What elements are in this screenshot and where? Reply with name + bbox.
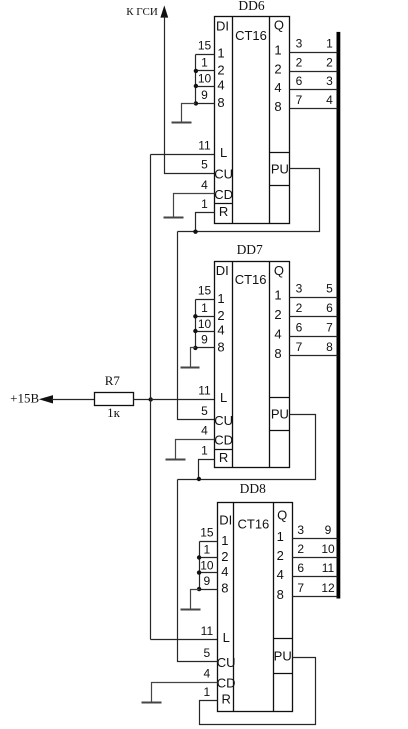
DD6 node DI pin9 junction [194, 101, 198, 105]
DD7 function label CT16 [235, 272, 267, 287]
DD6 R cell divider [215, 203, 233, 205]
svg-text:CT16: CT16 [235, 272, 267, 287]
DD6 Q weight 4 [274, 80, 281, 95]
DD7 wire R to PU loop [199, 415, 316, 480]
DD6 pin 6 (Q output) [296, 74, 303, 88]
DD8 input label CU [217, 655, 236, 670]
DD8 node DI pin9 junction [197, 587, 201, 591]
DD6 Q weight 2 [274, 61, 281, 76]
svg-text:3: 3 [297, 523, 304, 537]
svg-text:15: 15 [198, 38, 212, 52]
DD6 bus line number 1 [326, 36, 333, 50]
DD8 input label CD [217, 676, 236, 691]
wire DD6.L stub [151, 154, 215, 156]
svg-text:4: 4 [217, 323, 224, 338]
svg-text:4: 4 [204, 666, 211, 680]
svg-text:10: 10 [198, 317, 212, 331]
svg-text:4: 4 [217, 78, 224, 93]
DD8 column header DI [219, 513, 232, 528]
DD6 node DI pin10 junction [194, 84, 198, 88]
DD6 ground (CD input) [164, 194, 215, 218]
svg-text:DD6: DD6 [238, 0, 264, 13]
DD6 pin 1 (DI) [201, 56, 208, 70]
DD7 node DI pin1 junction [193, 314, 197, 318]
svg-text:9: 9 [204, 574, 211, 588]
svg-text:DI: DI [219, 513, 232, 528]
svg-text:5: 5 [326, 281, 333, 295]
DD6 node R net junction [193, 230, 197, 234]
DD7 column header Q [274, 263, 284, 278]
svg-text:R: R [222, 692, 231, 707]
svg-text:DD8: DD8 [240, 481, 266, 496]
DD7 node DI pin9 junction [193, 346, 197, 350]
DD7 output Q wire pin 2 to bus line 6 [290, 316, 338, 318]
DD6 pin 9 (DI) [201, 88, 208, 102]
svg-text:CT16: CT16 [238, 516, 270, 531]
DD8 input label R [222, 692, 231, 707]
svg-text:1: 1 [277, 529, 284, 544]
DD7 pin 10 (DI) [198, 317, 212, 331]
svg-text:4: 4 [274, 80, 281, 95]
DD8 pin 4 (CD) [204, 666, 211, 680]
DD8 input label L [223, 630, 230, 645]
DD7 ground (CD input) [166, 440, 215, 460]
DD7 pin 1 (R) [201, 443, 208, 457]
DD8 pin 15 (DI) [200, 526, 214, 540]
svg-text:DI: DI [216, 18, 229, 33]
DD7 output Q wire pin 6 to bus line 7 [290, 336, 338, 338]
DD6 output Q wire pin 2 to bus line 2 [290, 71, 338, 73]
svg-text:11: 11 [198, 384, 211, 398]
counter DD6 (CT16) symbol outline [215, 17, 290, 224]
wire DD7 carry to DD8.CU stub [178, 480, 218, 662]
svg-text:+15В: +15В [10, 390, 39, 405]
DD6 DI weight 2 [217, 63, 224, 78]
DD7 Q weight 1 [274, 287, 281, 302]
svg-text:10: 10 [198, 72, 212, 86]
DD8 ground (CD input) [142, 683, 218, 703]
DD8 output Q wire pin 7 to bus line 12 [293, 596, 338, 598]
svg-text:2: 2 [296, 301, 303, 315]
DD6 PU cell [270, 153, 290, 186]
DD7 input label CD [214, 433, 233, 448]
svg-text:1: 1 [204, 685, 211, 699]
DD6 bus line number 4 [326, 93, 333, 107]
svg-text:8: 8 [274, 99, 281, 114]
svg-text:4: 4 [326, 93, 333, 107]
DD8 DI weight 1 [221, 533, 228, 548]
svg-text:2: 2 [221, 549, 228, 564]
DD6 DI input stubs (pins 15,1,10,9) with common vertical [196, 55, 215, 104]
DD8 DI weight 8 [221, 581, 228, 596]
svg-text:PU: PU [271, 407, 289, 422]
DD7 pin 7 (Q output) [296, 340, 303, 354]
DD8 Q weight 8 [277, 587, 284, 602]
DD8 pin 10 (DI) [200, 558, 214, 572]
DD7 bus line number 8 [326, 340, 333, 354]
DD8 ground (DI inputs) [181, 590, 201, 610]
svg-text:R: R [219, 450, 228, 465]
svg-text:2: 2 [274, 61, 281, 76]
label DD8 [240, 481, 266, 496]
DD8 DI weight 4 [221, 564, 228, 579]
DD6 pin 10 (DI) [198, 72, 212, 86]
DD6 pin 1 (R) [201, 197, 208, 211]
DD7 pin 15 (DI) [198, 284, 212, 298]
svg-text:L: L [220, 390, 227, 405]
DD7 Q weight 8 [274, 346, 281, 361]
DD8 bus line number 9 [325, 523, 332, 537]
svg-text:6: 6 [296, 74, 303, 88]
DD6 bus line number 2 [326, 55, 333, 69]
svg-text:12: 12 [321, 581, 335, 595]
svg-text:8: 8 [217, 340, 224, 355]
DD8 output Q wire pin 2 to bus line 10 [293, 557, 338, 559]
svg-text:CD: CD [214, 187, 233, 202]
svg-text:7: 7 [296, 93, 303, 107]
svg-text:4: 4 [277, 567, 284, 582]
wire R7 to L-net [134, 399, 151, 401]
svg-text:3: 3 [296, 281, 303, 295]
svg-text:10: 10 [321, 542, 335, 556]
svg-text:2: 2 [217, 308, 224, 323]
svg-text:10: 10 [200, 558, 214, 572]
svg-text:6: 6 [296, 320, 303, 334]
DD7 input label CU [214, 413, 233, 428]
svg-text:7: 7 [296, 340, 303, 354]
svg-text:2: 2 [326, 55, 333, 69]
DD7 node R net junction [197, 477, 201, 481]
DD8 Q weight 2 [277, 548, 284, 563]
svg-text:11: 11 [201, 624, 214, 638]
svg-text:4: 4 [221, 564, 228, 579]
DD8 pin 2 (Q output) [297, 542, 304, 556]
svg-text:CU: CU [214, 413, 233, 428]
DD8 wire R to PU loop [200, 658, 316, 725]
DD6 pin 15 (DI) [198, 38, 212, 52]
DD7 PU cell [270, 398, 290, 431]
svg-text:1: 1 [201, 56, 208, 70]
DD7 pin 6 (Q output) [296, 320, 303, 334]
svg-text:6: 6 [326, 301, 333, 315]
svg-text:4: 4 [201, 178, 208, 192]
svg-text:3: 3 [296, 36, 303, 50]
DD6 wire R to PU loop [196, 169, 320, 232]
svg-text:11: 11 [322, 561, 335, 575]
label DD6 [238, 0, 264, 13]
svg-text:8: 8 [274, 346, 281, 361]
DD6 pin 11 (L) [198, 139, 211, 153]
svg-text:R7: R7 [105, 373, 121, 388]
svg-text:8: 8 [221, 581, 228, 596]
svg-text:4: 4 [201, 424, 208, 438]
svg-text:DI: DI [216, 263, 229, 278]
svg-text:8: 8 [277, 587, 284, 602]
DD6 pin 5 (CU) [201, 158, 208, 172]
DD6 DI weight 4 [217, 78, 224, 93]
DD7 pin 3 (Q output) [296, 281, 303, 295]
wire К ГСИ clock line to DD6.CU (up arrow) [160, 5, 214, 173]
power label +15В [10, 390, 39, 405]
DD8 pin 3 (Q output) [297, 523, 304, 537]
svg-text:3: 3 [326, 74, 333, 88]
svg-text:1: 1 [221, 533, 228, 548]
DD7 node DI pin10 junction [193, 329, 197, 333]
svg-text:6: 6 [297, 561, 304, 575]
counter DD7 (CT16) symbol outline [215, 262, 290, 468]
svg-text:Q: Q [274, 263, 284, 278]
DD8 PU cell [274, 639, 293, 674]
DD7 DI weight 1 [217, 291, 224, 306]
svg-text:2: 2 [277, 548, 284, 563]
resistor R7 [95, 393, 134, 406]
wire DD7.L stub [151, 399, 215, 401]
svg-text:1: 1 [201, 301, 208, 315]
svg-text:DD7: DD7 [237, 242, 263, 257]
DD8 pin 1 (DI) [204, 543, 211, 557]
svg-text:2: 2 [296, 55, 303, 69]
svg-text:7: 7 [326, 320, 333, 334]
DD8 node DI pin1 junction [197, 555, 201, 559]
svg-text:L: L [220, 145, 227, 160]
svg-text:1: 1 [217, 291, 224, 306]
value 1к [107, 405, 121, 420]
svg-text:15: 15 [198, 284, 212, 298]
svg-text:К ГСИ: К ГСИ [126, 6, 158, 18]
counter DD8 (CT16) symbol outline [218, 503, 293, 712]
wire DD6 carry to DD7.CU stub [178, 232, 215, 420]
svg-text:5: 5 [201, 158, 208, 172]
DD8 pin 5 (CU) [204, 646, 211, 660]
DD6 output Q wire pin 3 to bus line 1 [290, 52, 338, 54]
svg-text:1: 1 [274, 287, 281, 302]
DD8 output Q wire pin 6 to bus line 11 [293, 576, 338, 578]
DD7 pin 11 (L) [198, 384, 211, 398]
svg-text:9: 9 [201, 333, 208, 347]
DD7 bus line number 6 [326, 301, 333, 315]
DD6 output Q wire pin 6 to bus line 3 [290, 89, 338, 91]
DD7 output Q wire pin 7 to bus line 8 [290, 355, 338, 357]
label DD7 [237, 242, 263, 257]
DD8 bus line number 11 [322, 561, 335, 575]
DD7 input label L [220, 390, 227, 405]
svg-text:CU: CU [214, 167, 233, 182]
svg-text:11: 11 [198, 139, 211, 153]
DD6 input label CD [214, 187, 233, 202]
svg-text:Q: Q [277, 508, 287, 523]
DD8 pin 9 (DI) [204, 574, 211, 588]
svg-text:2: 2 [274, 307, 281, 322]
DD7 input label R [219, 450, 228, 465]
DD7 pin 1 (DI) [201, 301, 208, 315]
svg-text:PU: PU [271, 162, 289, 177]
svg-text:L: L [223, 630, 230, 645]
DD7 R cell divider [215, 449, 233, 451]
DD6 DI weight 8 [217, 95, 224, 110]
DD8 Q weight 4 [277, 567, 284, 582]
DD8 pin 6 (Q output) [297, 561, 304, 575]
DD7 column header DI [216, 263, 229, 278]
DD7 output Q wire pin 3 to bus line 5 [290, 297, 338, 299]
svg-text:1: 1 [274, 42, 281, 57]
svg-text:5: 5 [204, 646, 211, 660]
wire DD8.L stub [151, 639, 218, 641]
DD7 wire R net to next stage [178, 479, 199, 481]
DD6 DI weight 1 [217, 46, 224, 61]
svg-text:1: 1 [204, 543, 211, 557]
DD6 bus line number 3 [326, 74, 333, 88]
DD8 column header Q [277, 508, 287, 523]
svg-text:1: 1 [217, 46, 224, 61]
DD8 Q weight 1 [277, 529, 284, 544]
DD6 column header DI [216, 18, 229, 33]
svg-text:8: 8 [217, 95, 224, 110]
svg-text:2: 2 [297, 542, 304, 556]
DD8 function label CT16 [238, 516, 270, 531]
svg-text:CD: CD [217, 676, 236, 691]
DD7 ground (DI inputs) [181, 348, 200, 368]
DD6 Q weight 1 [274, 42, 281, 57]
wire +15В feed with left arrowhead [39, 395, 95, 403]
node L-net / R7 junction [149, 397, 153, 401]
DD7 pin 9 (DI) [201, 333, 208, 347]
DD8 DI weight 2 [221, 549, 228, 564]
bus bar (output bus) [337, 32, 341, 599]
svg-text:1к: 1к [107, 405, 121, 420]
svg-text:7: 7 [297, 581, 304, 595]
svg-text:CU: CU [217, 655, 236, 670]
DD7 pin 5 (CU) [201, 404, 208, 418]
DD6 input label R [219, 204, 228, 219]
DD6 pin 2 (Q output) [296, 55, 303, 69]
svg-text:8: 8 [326, 340, 333, 354]
DD8 output Q wire pin 3 to bus line 9 [293, 538, 338, 540]
DD6 Q weight 8 [274, 99, 281, 114]
svg-text:5: 5 [201, 404, 208, 418]
svg-text:9: 9 [201, 88, 208, 102]
DD8 bus line number 10 [321, 542, 335, 556]
svg-text:4: 4 [274, 326, 281, 341]
DD6 output Q wire pin 7 to bus line 4 [290, 108, 338, 110]
svg-text:1: 1 [201, 443, 208, 457]
wire L-net vertical (DD6.L - DD7.L - DD8.L) [150, 155, 152, 640]
DD8 pin 7 (Q output) [297, 581, 304, 595]
DD7 Q weight 2 [274, 307, 281, 322]
svg-text:1: 1 [326, 36, 333, 50]
DD7 Q weight 4 [274, 326, 281, 341]
DD7 DI input stubs (pins 15,1,10,9) with common vertical [196, 300, 215, 348]
DD7 pin 4 (CD) [201, 424, 208, 438]
svg-text:CD: CD [214, 433, 233, 448]
DD7 DI weight 2 [217, 308, 224, 323]
DD6 node DI pin1 junction [194, 69, 198, 73]
svg-text:9: 9 [325, 523, 332, 537]
svg-text:R: R [219, 204, 228, 219]
DD6 input label CU [214, 167, 233, 182]
DD6 function label CT16 [235, 28, 267, 43]
DD6 column header Q [274, 18, 284, 33]
DD6 ground (DI inputs) [172, 104, 196, 123]
DD7 bus line number 5 [326, 281, 333, 295]
DD7 pin 2 (Q output) [296, 301, 303, 315]
DD6 pin 4 (CD) [201, 178, 208, 192]
DD6 pin 7 (Q output) [296, 93, 303, 107]
svg-text:1: 1 [201, 197, 208, 211]
DD8 bus line number 12 [321, 581, 335, 595]
svg-text:15: 15 [200, 526, 214, 540]
DD8 node DI pin10 junction [197, 570, 201, 574]
svg-text:PU: PU [274, 648, 292, 663]
DD7 bus line number 7 [326, 320, 333, 334]
DD6 input label L [220, 145, 227, 160]
net label К ГСИ [126, 6, 158, 18]
svg-text:Q: Q [274, 18, 284, 33]
svg-text:2: 2 [217, 63, 224, 78]
svg-text:CT16: CT16 [235, 28, 267, 43]
DD8 pin 11 (L) [201, 624, 214, 638]
DD8 DI input stubs (pins 15,1,10,9) with common vertical [200, 542, 218, 590]
DD7 DI weight 8 [217, 340, 224, 355]
DD7 DI weight 4 [217, 323, 224, 338]
DD6 wire R net to next stage [178, 231, 196, 233]
DD6 pin 3 (Q output) [296, 36, 303, 50]
label R7 [105, 373, 121, 388]
DD8 pin 1 (R) [204, 685, 211, 699]
